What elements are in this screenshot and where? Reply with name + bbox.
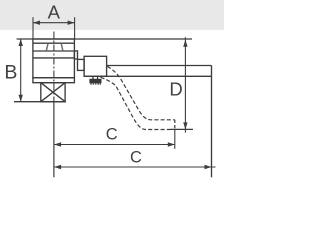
dimension B (20, 39, 22, 102)
cable end edge extended down (211, 66, 213, 178)
dashed bent cable inner (101, 77, 171, 129)
C upper right extension (174, 129, 176, 148)
dimension A (33, 17, 75, 39)
dimension C lower (54, 166, 215, 168)
straight cable top (107, 65, 212, 67)
svg-text:C: C (130, 149, 142, 167)
dimension C upper (54, 144, 175, 146)
body internal line 2 (33, 50, 75, 52)
straight cable bottom (84, 75, 211, 77)
center line dash-dot (53, 32, 55, 103)
D bottom reference tick (171, 128, 194, 130)
crossed mounting box (41, 83, 65, 102)
stub between body and connector (74, 51, 77, 59)
dashed bent cable outer (107, 66, 175, 120)
body internal line 3 (33, 57, 75, 59)
dashed cable end cap (174, 120, 176, 130)
svg-text:C: C (106, 126, 118, 144)
svg-text:D: D (169, 78, 182, 99)
top gray band (0, 0, 224, 30)
center line solid lower (53, 102, 55, 177)
connector body (84, 56, 107, 76)
body internal line 1 (33, 42, 75, 44)
cable gland (89, 76, 101, 84)
svg-text:B: B (4, 62, 17, 84)
body base band (33, 78, 75, 83)
svg-text:A: A (48, 2, 61, 23)
dimension D (184, 37, 186, 132)
box bottom extension line (14, 101, 66, 103)
wire top reference line (B ext + body top + D ext) (17, 38, 192, 40)
body outline (33, 39, 75, 78)
trapezoid manual override (46, 43, 63, 50)
interface block (78, 59, 85, 70)
